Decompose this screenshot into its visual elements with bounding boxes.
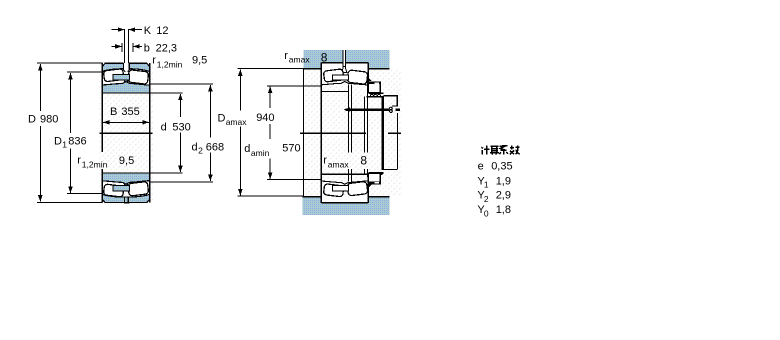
right figure background hatch: [304, 69, 402, 197]
right figure centerline: [300, 132, 366, 134]
lock nut thread line bottom: [369, 172, 384, 174]
dimension D1 836 extension bottom: [67, 193, 101, 195]
right bearing left face: [320, 63, 322, 203]
svg-text:d: d: [192, 142, 198, 154]
svg-text:9,5: 9,5: [192, 55, 207, 67]
svg-text:980: 980: [40, 114, 58, 126]
svg-text:e: e: [478, 160, 484, 172]
svg-text:570: 570: [282, 143, 300, 155]
svg-text:r: r: [284, 50, 288, 62]
dimension d2 668 extension bottom: [150, 181, 213, 183]
svg-text:2: 2: [484, 194, 489, 204]
svg-text:2: 2: [198, 146, 203, 156]
left figure background hatch: [100, 62, 154, 205]
svg-text:1,8: 1,8: [496, 204, 511, 216]
left bearing inner ring bottom section: [102, 173, 149, 184]
left bearing right face: [149, 63, 151, 202]
dimension K 12 oil hole lines: [123, 29, 125, 63]
left bearing bottom right roller: [128, 181, 149, 196]
svg-text:22,3: 22,3: [156, 42, 177, 54]
lock nut body top: [366, 96, 383, 98]
right bearing bottom right roller: [347, 181, 368, 196]
right bearing top cage bar: [333, 75, 349, 80]
lock washer block bottom: [368, 174, 380, 184]
lock nut thread line top: [369, 92, 384, 94]
right bearing bottom cage bar: [333, 186, 349, 191]
svg-text:r: r: [152, 54, 156, 66]
dimension b 22,3 extension lines: [121, 43, 123, 52]
dimension damin 570 extension top: [267, 85, 322, 87]
left bearing bottom cage bar: [113, 186, 129, 191]
dimension K 12: [112, 29, 125, 31]
left bearing bottom left roller: [103, 184, 124, 197]
svg-text:1,2min: 1,2min: [157, 59, 183, 69]
dimension Damax 940 extension top: [237, 68, 303, 70]
dimension D 980 extension bottom: [37, 201, 102, 203]
dimension D1 836 line and arrows: [70, 73, 72, 133]
dimension B 355 line and arrows: [103, 121, 149, 123]
dimension b 22,3: [112, 45, 122, 47]
dimension d2 668 line and arrows: [209, 85, 211, 138]
svg-text:530: 530: [172, 121, 190, 133]
left bearing top cage tongue: [124, 80, 127, 83]
svg-text:B: B: [110, 106, 117, 118]
svg-text:K: K: [144, 25, 152, 37]
left bearing bore top line: [102, 92, 149, 94]
right bearing bore top line: [322, 90, 349, 92]
svg-text:d: d: [244, 143, 250, 155]
svg-text:836: 836: [68, 135, 86, 147]
left bearing outer ring bottom section: [102, 194, 149, 202]
svg-text:b: b: [144, 42, 150, 54]
fillet radius arrow top: [368, 78, 371, 81]
right bearing top left roller: [323, 69, 343, 82]
dimension Damax 940 line and arrows: [239, 69, 241, 110]
svg-text:D: D: [54, 135, 62, 147]
right bearing top right roller: [347, 70, 368, 85]
left bearing top left roller: [103, 69, 124, 82]
left bearing lubrication hole top: [124, 62, 130, 69]
calculation factors heading (CJK): [481, 146, 519, 155]
dimension Damax 940 extension bottom: [237, 195, 303, 197]
shaft end rectangle bottom: [384, 169, 398, 171]
left bearing lubrication hole bottom notch: [124, 197, 126, 203]
right bearing bottom left roller: [323, 184, 343, 197]
svg-text:amin: amin: [251, 148, 270, 158]
svg-text:0: 0: [484, 208, 489, 218]
right bearing inner ring top boundary: [321, 82, 368, 85]
left bearing outer ring top section: [102, 63, 149, 71]
dimension damin 570 line and arrows: [269, 87, 271, 108]
housing shoulder left edge: [302, 69, 304, 197]
left bearing top right roller: [128, 70, 149, 85]
svg-text:1: 1: [62, 140, 67, 150]
svg-text:D: D: [28, 114, 36, 126]
shaft end rectangle top: [384, 96, 398, 106]
dimension D 980 line and arrows: [39, 64, 41, 111]
left bearing centerline: [100, 132, 153, 134]
right bearing bore bottom line: [322, 173, 383, 175]
dimension D1 836 extension top: [67, 71, 101, 73]
dimension d 530 line and arrows: [179, 94, 181, 117]
shaft end line with arrow top: [346, 108, 390, 110]
svg-text:0,35: 0,35: [491, 160, 512, 172]
right bearing lubrication hole bottom mark: [341, 202, 349, 204]
dimension d 530 extension bottom: [150, 172, 183, 174]
dimension d2 668 extension top: [150, 83, 213, 85]
svg-text:668: 668: [206, 142, 224, 154]
svg-text:9,5: 9,5: [119, 155, 134, 167]
svg-text:amax: amax: [226, 117, 248, 127]
svg-text:r: r: [77, 154, 81, 166]
dimension damin 570 extension bottom tick: [303, 171, 305, 182]
left bearing bottom cage tongue: [124, 183, 127, 186]
housing bottom band: [303, 197, 390, 215]
small label a top: [390, 107, 393, 110]
right bearing inner ring bottom boundary: [321, 181, 368, 184]
shaft step double line left: [347, 84, 349, 152]
left bearing inner ring top section: [102, 82, 149, 93]
dimension D 980 extension top: [37, 62, 102, 64]
svg-text:1,2min: 1,2min: [82, 159, 108, 169]
svg-text:D: D: [218, 112, 226, 124]
fillet radius arrow bottom: [368, 185, 371, 188]
svg-text:amax: amax: [328, 159, 350, 169]
left bearing bore bottom line: [102, 172, 149, 174]
svg-text:d: d: [161, 121, 167, 133]
svg-text:r: r: [323, 154, 327, 166]
shaft abutment double line right: [364, 97, 366, 153]
dimension d 530 extension top: [150, 92, 183, 94]
svg-text:8: 8: [360, 154, 367, 168]
svg-text:2,9: 2,9: [496, 190, 511, 202]
shaft end vertical thin line right: [397, 113, 399, 169]
svg-text:1,9: 1,9: [496, 175, 511, 187]
svg-text:amax: amax: [289, 55, 311, 65]
left bearing left face: [101, 63, 103, 152]
svg-text:1: 1: [484, 180, 489, 190]
housing top band: [303, 50, 389, 69]
svg-text:8: 8: [321, 50, 328, 64]
right bearing lubrication hole: [343, 50, 346, 67]
svg-text:355: 355: [121, 106, 139, 118]
lock washer block top: [368, 82, 380, 92]
right bearing right face: [367, 63, 369, 88]
svg-text:940: 940: [256, 112, 274, 124]
dimension damin 570 extension top tick: [303, 84, 305, 95]
svg-text:12: 12: [156, 25, 168, 37]
left bearing top cage bar: [113, 75, 129, 80]
dimension damin 570 extension bottom: [267, 179, 322, 181]
